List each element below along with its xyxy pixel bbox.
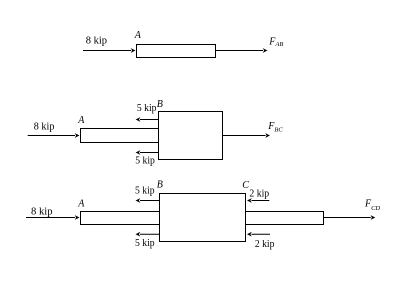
FBD 3: bottom-left force arrow 5 kip bbox=[136, 232, 160, 237]
FBD 3: bar segment AB thin bbox=[81, 212, 160, 225]
FBD 3: applied force arrow 8 kip bbox=[26, 215, 80, 220]
FBD 1: bar segment AB bbox=[137, 45, 216, 58]
svg-text:C: C bbox=[242, 180, 249, 191]
svg-text:5 kip: 5 kip bbox=[135, 237, 155, 249]
svg-text:8 kip: 8 kip bbox=[86, 35, 108, 47]
svg-text:8 kip: 8 kip bbox=[31, 205, 53, 217]
svg-text:CD: CD bbox=[371, 205, 380, 212]
svg-text:A: A bbox=[77, 115, 85, 126]
FBD 1: applied force arrow 8 kip bbox=[83, 48, 136, 53]
svg-text:AB: AB bbox=[274, 41, 283, 48]
svg-text:A: A bbox=[77, 198, 85, 209]
svg-text:8 kip: 8 kip bbox=[34, 121, 55, 133]
FBD 1: internal force arrow F_AB bbox=[216, 48, 268, 53]
FBD 3: bar segment CD thin bbox=[246, 212, 324, 225]
FBD 3: bar segment BC block bbox=[160, 194, 246, 242]
FBD 3: top-left force arrow 5 kip bbox=[136, 198, 160, 203]
FBD 3: bottom-right force arrow 2 kip bbox=[247, 232, 270, 237]
svg-text:BC: BC bbox=[274, 127, 283, 134]
svg-text:B: B bbox=[157, 179, 163, 190]
svg-text:A: A bbox=[134, 30, 142, 41]
svg-text:B: B bbox=[157, 99, 163, 110]
FBD 2: applied force arrow 8 kip bbox=[28, 133, 80, 138]
svg-text:2 kip: 2 kip bbox=[255, 238, 275, 250]
svg-text:5 kip: 5 kip bbox=[135, 154, 155, 166]
FBD 3: top-right force arrow 2 kip bbox=[247, 198, 269, 203]
FBD 2: bottom force arrow 5 kip bbox=[136, 150, 159, 155]
svg-text:2 kip: 2 kip bbox=[249, 188, 269, 200]
svg-text:5 kip: 5 kip bbox=[135, 185, 155, 197]
FBD 3: internal force arrow F_CD bbox=[324, 215, 376, 220]
FBD 2: bar segment B block bbox=[159, 112, 223, 160]
FBD 2: internal force arrow F_BC bbox=[223, 133, 271, 138]
FBD 2: bar segment AB thin bbox=[81, 129, 159, 143]
FBD 2: top force arrow 5 kip bbox=[136, 117, 159, 122]
svg-text:5 kip: 5 kip bbox=[137, 102, 157, 114]
